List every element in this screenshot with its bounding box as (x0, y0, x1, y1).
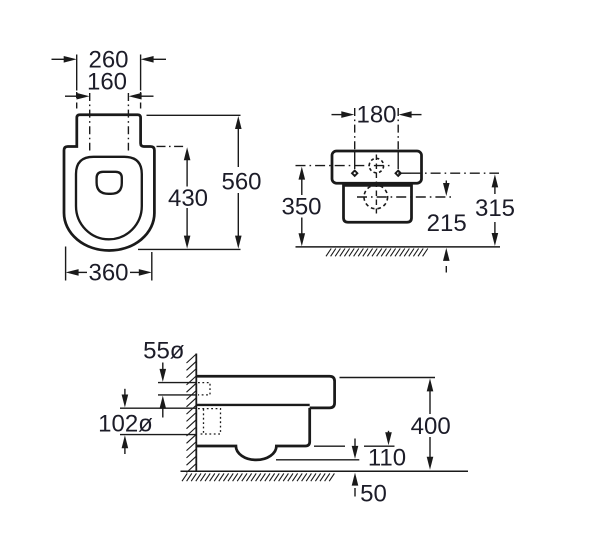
drain pipe dotted (198, 409, 221, 434)
hole centerline left (front) (354, 108, 356, 169)
svg-text:560: 560 (221, 169, 261, 196)
svg-text:110: 110 (368, 445, 406, 472)
dim 560 (235, 116, 242, 249)
svg-text:360: 360 (88, 259, 128, 286)
front upper body (332, 151, 422, 183)
body bottom ext line segments (314, 445, 395, 447)
dim 430 (184, 147, 191, 248)
supply pipe ext lines (158, 383, 197, 395)
dim 350 (299, 167, 306, 247)
ext line bottom (560/430 ref) (138, 248, 241, 250)
front lower body (344, 185, 412, 222)
svg-text:430: 430 (168, 185, 208, 212)
tap hole diamond left (351, 169, 359, 177)
ext line top (560 ref) (147, 114, 241, 116)
ext line 360 right (151, 252, 153, 281)
dash-dot 430 ref (157, 145, 184, 147)
dim 50 arrows (352, 439, 359, 497)
plan bowl hole (97, 172, 122, 194)
dim 360 arrows (66, 269, 152, 276)
ext line 260 left (76, 55, 78, 114)
svg-text:160: 160 (87, 69, 127, 96)
svg-text:400: 400 (411, 413, 451, 440)
side body lower (196, 408, 309, 460)
wall hatch (187, 354, 197, 473)
side body upper slab (196, 376, 334, 408)
fixing holes centerline right (398, 172, 499, 174)
svg-text:180: 180 (356, 101, 396, 128)
svg-text:215: 215 (427, 210, 467, 237)
supply circle (369, 158, 383, 172)
drain pipe ext lines (120, 408, 197, 434)
dim 215 arrows (443, 181, 450, 273)
ground line front (296, 246, 501, 248)
vertical centerline (front center) (375, 155, 377, 214)
hole centerline right (front) (397, 108, 399, 169)
svg-text:102ø: 102ø (98, 411, 153, 438)
ext line 400 top (340, 377, 436, 379)
plan inner rim (76, 157, 142, 240)
svg-text:50: 50 (360, 481, 387, 508)
tap hole diamond right (394, 169, 402, 177)
plan outline (64, 115, 154, 251)
supply pipe dotted (198, 383, 210, 395)
wall line (195, 354, 197, 472)
hole centerline left (89, 93, 91, 151)
svg-text:315: 315 (475, 195, 515, 222)
dim 102 arrows (122, 389, 129, 454)
dim 400 (427, 378, 434, 469)
dim 110 arrow (385, 431, 392, 445)
svg-text:350: 350 (281, 193, 321, 220)
dim 55 arrows (160, 363, 167, 418)
hole centerline right (127, 93, 129, 151)
bump bottom ext line (276, 459, 359, 461)
dim 260 arrows (52, 56, 167, 63)
dim 180 arrows (332, 111, 422, 118)
ground hatch side (182, 473, 334, 481)
ground line side (181, 470, 469, 472)
ext line 260 right (140, 55, 142, 114)
dim 315 (492, 174, 499, 246)
ext line 360 left (65, 247, 67, 281)
supply centerline horizontal (296, 165, 391, 167)
dim 160 arrows (65, 93, 154, 100)
ground hatch front (326, 248, 428, 256)
side body seam (196, 404, 309, 406)
drain circle (364, 185, 388, 209)
svg-text:55ø: 55ø (143, 338, 185, 365)
drain centerline horizontal (357, 196, 453, 198)
